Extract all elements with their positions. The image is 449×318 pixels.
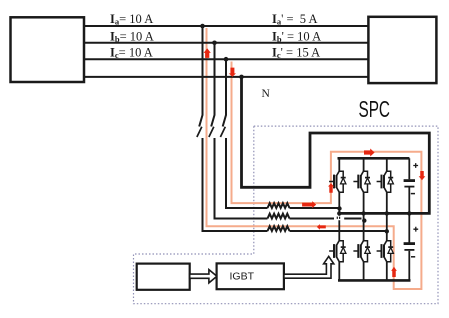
svg-text:IGBT: IGBT: [230, 271, 255, 283]
wire DC bottom rail: [338, 279, 411, 282]
wire hop tick over leg 1: [337, 217, 339, 219]
block arrow driver to bridge: [284, 256, 334, 278]
SPC dashed boundary: [134, 126, 439, 304]
wire inductor L2 to leg 2: [290, 218, 362, 220]
node neutral rail leg1: [337, 211, 341, 215]
wire: highlighted compensation current path (salmon): [207, 28, 422, 289]
inductor L3: [268, 226, 290, 231]
node neutral rail leg3: [385, 211, 389, 215]
controller box: [137, 264, 190, 290]
switch S3 blade: [220, 127, 225, 137]
node phase b tap: [212, 41, 217, 46]
block arrow controller to IGBT driver: [190, 270, 217, 283]
wire phase c: [84, 58, 368, 60]
capacitor C1 (top DC-link): [404, 158, 419, 213]
transistor Q6 (bottom leg3 IGBT with diode): [377, 241, 394, 281]
wire DC top rail: [338, 157, 410, 160]
wire phase b drop: [211, 43, 214, 127]
wire phase a: [84, 25, 368, 27]
node leg2 phase connection: [362, 218, 366, 222]
wire neutral to DC midpoint: [242, 77, 430, 214]
node leg3 phase connection: [385, 229, 389, 233]
node neutral rail capacitor midpoint: [407, 211, 411, 215]
arrow current right on top salmon run: [364, 149, 375, 157]
IGBT driver box: [217, 263, 284, 289]
wire inductor L3 to leg 3: [290, 230, 387, 232]
wire phase c drop: [223, 59, 226, 126]
transistor Q4 (bottom leg1 IGBT with diode): [329, 241, 346, 281]
source box: [11, 17, 85, 82]
arrow current down from phase c: [229, 68, 236, 77]
wire phase c to inductor La: [226, 138, 268, 208]
wire phase b to inductor Lb: [215, 138, 268, 219]
node phase a tap: [200, 24, 205, 29]
arrow current up at leg3 bottom: [391, 267, 397, 277]
svg-text:SPC: SPC: [359, 96, 391, 122]
load box: [368, 17, 436, 83]
transistor Q2 (top leg2 IGBT with diode): [353, 158, 370, 240]
transistor Q1 (top leg1 IGBT with diode): [329, 158, 346, 240]
inductor L2: [268, 214, 290, 219]
wire inductor L1 to leg 1: [290, 207, 340, 209]
svg-text:N: N: [262, 88, 271, 100]
switch S2 blade: [209, 127, 214, 137]
wire phase a to inductor Lc: [203, 138, 268, 231]
node phase c tap: [224, 57, 229, 62]
wire phase b: [84, 42, 368, 44]
arrow current down at right of capacitors: [419, 171, 426, 180]
arrow current up at bridge left: [328, 183, 334, 193]
arrow current up into phase a: [204, 48, 211, 58]
inductor L1: [268, 203, 290, 208]
node neutral rail leg2: [361, 211, 365, 215]
wire phase a drop: [199, 26, 202, 127]
wire neutral: [84, 76, 368, 78]
node neutral tap: [239, 75, 244, 80]
capacitor C2 (bottom DC-link): [404, 213, 419, 280]
transistor Q3 (top leg3 IGBT with diode): [377, 158, 394, 240]
switch S1 blade: [197, 127, 202, 137]
node leg1 phase connection: [337, 206, 341, 210]
arrow current left on leg3 phase wire: [317, 224, 326, 230]
arrow current right on leg1 phase wire: [302, 201, 316, 208]
transistor Q5 (bottom leg2 IGBT with diode): [353, 241, 370, 281]
